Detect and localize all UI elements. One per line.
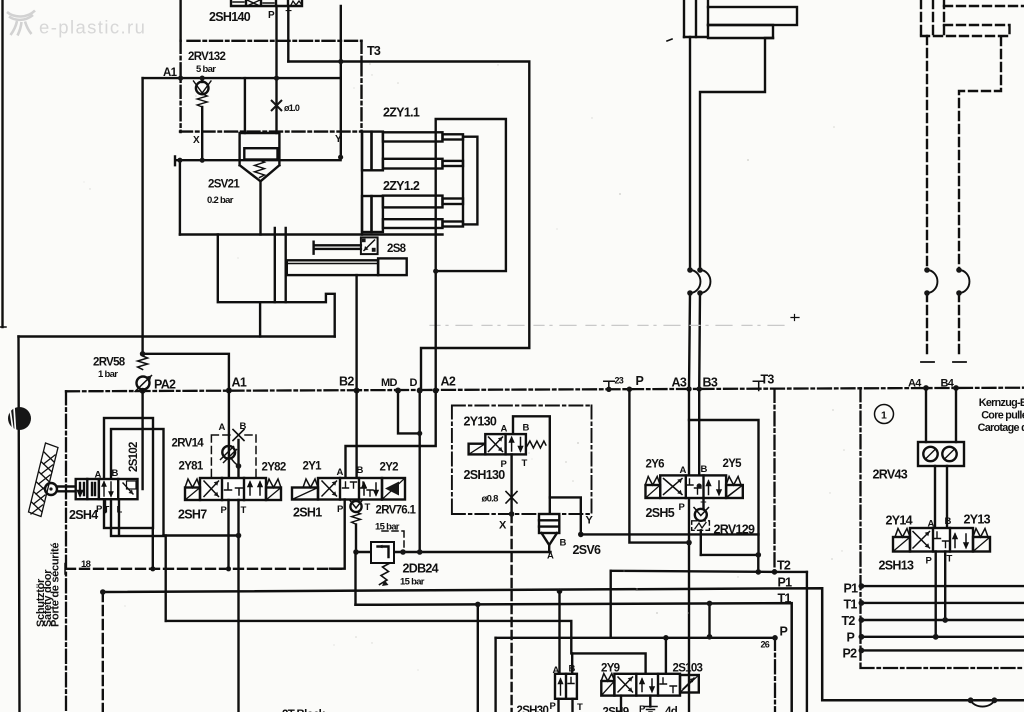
svg-text:2Y1: 2Y1 (303, 461, 323, 473)
svg-text:Y: Y (586, 515, 594, 527)
svg-text:26: 26 (761, 640, 770, 650)
svg-text:T: T (947, 554, 953, 565)
svg-text:B2: B2 (339, 375, 354, 389)
svg-text:15 bar: 15 bar (400, 577, 425, 588)
svg-text:4d: 4d (665, 706, 678, 712)
svg-text:P1: P1 (778, 576, 793, 590)
svg-text:P: P (679, 502, 686, 513)
svg-text:2RV58: 2RV58 (93, 357, 126, 369)
svg-text:B: B (701, 464, 708, 475)
svg-text:Carotage d: Carotage d (978, 422, 1024, 434)
svg-text:T2: T2 (777, 559, 791, 573)
svg-text:A: A (95, 470, 102, 481)
svg-text:P: P (780, 625, 788, 639)
svg-text:P: P (221, 505, 228, 516)
svg-text:T: T (701, 500, 707, 511)
svg-text:P1: P1 (844, 582, 859, 596)
svg-text:T1: T1 (778, 592, 792, 606)
svg-text:A: A (680, 465, 687, 476)
svg-text:A: A (547, 551, 554, 562)
svg-text:T3: T3 (761, 373, 775, 387)
svg-text:2SH7: 2SH7 (178, 508, 207, 522)
svg-text:PA2: PA2 (154, 378, 176, 392)
svg-text:2Y9: 2Y9 (601, 663, 620, 675)
svg-text:A: A (219, 422, 226, 433)
svg-text:X: X (499, 520, 507, 532)
svg-text:2SH4: 2SH4 (69, 508, 98, 522)
svg-text:15 bar: 15 bar (375, 522, 400, 533)
svg-text:2SH5: 2SH5 (646, 506, 675, 520)
svg-text:T: T (577, 702, 583, 712)
svg-text:2S103: 2S103 (673, 663, 703, 675)
svg-text:T: T (365, 502, 371, 513)
svg-text:A: A (337, 467, 344, 478)
svg-text:A1: A1 (232, 376, 247, 390)
svg-text:P: P (337, 504, 344, 515)
svg-text:23: 23 (615, 376, 624, 386)
svg-text:P: P (847, 631, 855, 645)
svg-text:B: B (240, 421, 247, 432)
svg-text:ø0.8: ø0.8 (482, 494, 499, 505)
svg-text:Core pulle: Core pulle (981, 410, 1024, 422)
svg-text:D: D (410, 377, 418, 389)
svg-text:B: B (560, 538, 567, 549)
svg-text:P: P (268, 10, 275, 21)
svg-text:X: X (193, 135, 200, 146)
svg-text:B: B (112, 468, 119, 479)
svg-text:P: P (926, 556, 933, 567)
svg-text:2Y82: 2Y82 (262, 462, 286, 474)
svg-text:A3: A3 (672, 376, 687, 390)
svg-text:L: L (117, 505, 123, 516)
svg-text:Kernzug-B: Kernzug-B (979, 397, 1024, 409)
svg-text:2RV129: 2RV129 (714, 523, 755, 537)
svg-text:2DB24: 2DB24 (403, 562, 439, 576)
svg-text:2SH30: 2SH30 (517, 705, 549, 712)
svg-text:2SH1: 2SH1 (293, 506, 322, 520)
svg-text:P: P (639, 704, 646, 712)
svg-text:Y: Y (335, 134, 342, 145)
svg-text:B4: B4 (941, 378, 955, 390)
svg-text:e-plastic.ru: e-plastic.ru (39, 17, 146, 38)
svg-text:T2: T2 (842, 614, 856, 628)
svg-text:2S8: 2S8 (387, 243, 407, 255)
svg-text:5 bar: 5 bar (196, 64, 216, 75)
svg-text:ø1.0: ø1.0 (284, 103, 300, 113)
svg-text:2SV21: 2SV21 (208, 179, 240, 191)
svg-text:T: T (104, 505, 110, 516)
svg-text:T1: T1 (844, 598, 858, 612)
svg-text:B: B (569, 664, 576, 675)
svg-text:2ZY1.1: 2ZY1.1 (383, 106, 420, 120)
svg-text:P2: P2 (843, 647, 858, 661)
svg-text:A: A (928, 519, 935, 530)
svg-text:P: P (636, 374, 644, 388)
svg-text:P: P (96, 504, 103, 515)
svg-text:2RV43: 2RV43 (873, 468, 908, 482)
svg-text:0.2 bar: 0.2 bar (207, 195, 234, 206)
svg-text:2Y6: 2Y6 (646, 459, 665, 471)
svg-text:A2: A2 (441, 375, 456, 389)
svg-text:MD: MD (381, 377, 397, 389)
svg-text:2Y14: 2Y14 (886, 514, 913, 528)
svg-text:T: T (522, 458, 528, 469)
svg-text:B3: B3 (703, 376, 718, 390)
svg-text:2ZY1.2: 2ZY1.2 (383, 179, 420, 193)
svg-text:2Y13: 2Y13 (964, 513, 991, 527)
svg-text:2SH130: 2SH130 (464, 468, 506, 482)
svg-text:2RV14: 2RV14 (172, 438, 205, 450)
svg-text:A1: A1 (163, 67, 178, 79)
svg-text:2SV6: 2SV6 (573, 543, 602, 557)
svg-text:A4: A4 (908, 378, 922, 390)
svg-text:2SH140: 2SH140 (209, 10, 251, 24)
svg-text:2SH9: 2SH9 (603, 707, 629, 712)
svg-text:B: B (523, 423, 530, 434)
svg-text:1 bar: 1 bar (98, 369, 118, 380)
svg-text:2Y5: 2Y5 (723, 458, 743, 470)
svg-text:2SH13: 2SH13 (879, 559, 914, 573)
svg-text:1: 1 (881, 410, 887, 422)
svg-text:Porte de sécurité: Porte de sécurité (49, 543, 61, 627)
svg-text:B: B (945, 516, 952, 527)
svg-text:A: A (501, 424, 508, 435)
svg-text:T3: T3 (367, 44, 381, 58)
svg-text:2Y81: 2Y81 (179, 461, 204, 473)
svg-text:B: B (357, 465, 364, 476)
svg-text:2S102: 2S102 (128, 442, 140, 472)
svg-text:2Y2: 2Y2 (380, 462, 399, 474)
svg-text:A: A (553, 665, 560, 676)
svg-text:T: T (286, 9, 292, 20)
svg-text:18: 18 (81, 559, 91, 570)
svg-text:P: P (550, 701, 557, 712)
svg-text:2RV132: 2RV132 (188, 51, 225, 63)
svg-text:2RV76.1: 2RV76.1 (376, 505, 417, 517)
svg-text:2Y130: 2Y130 (464, 415, 497, 429)
svg-text:T: T (241, 505, 247, 516)
